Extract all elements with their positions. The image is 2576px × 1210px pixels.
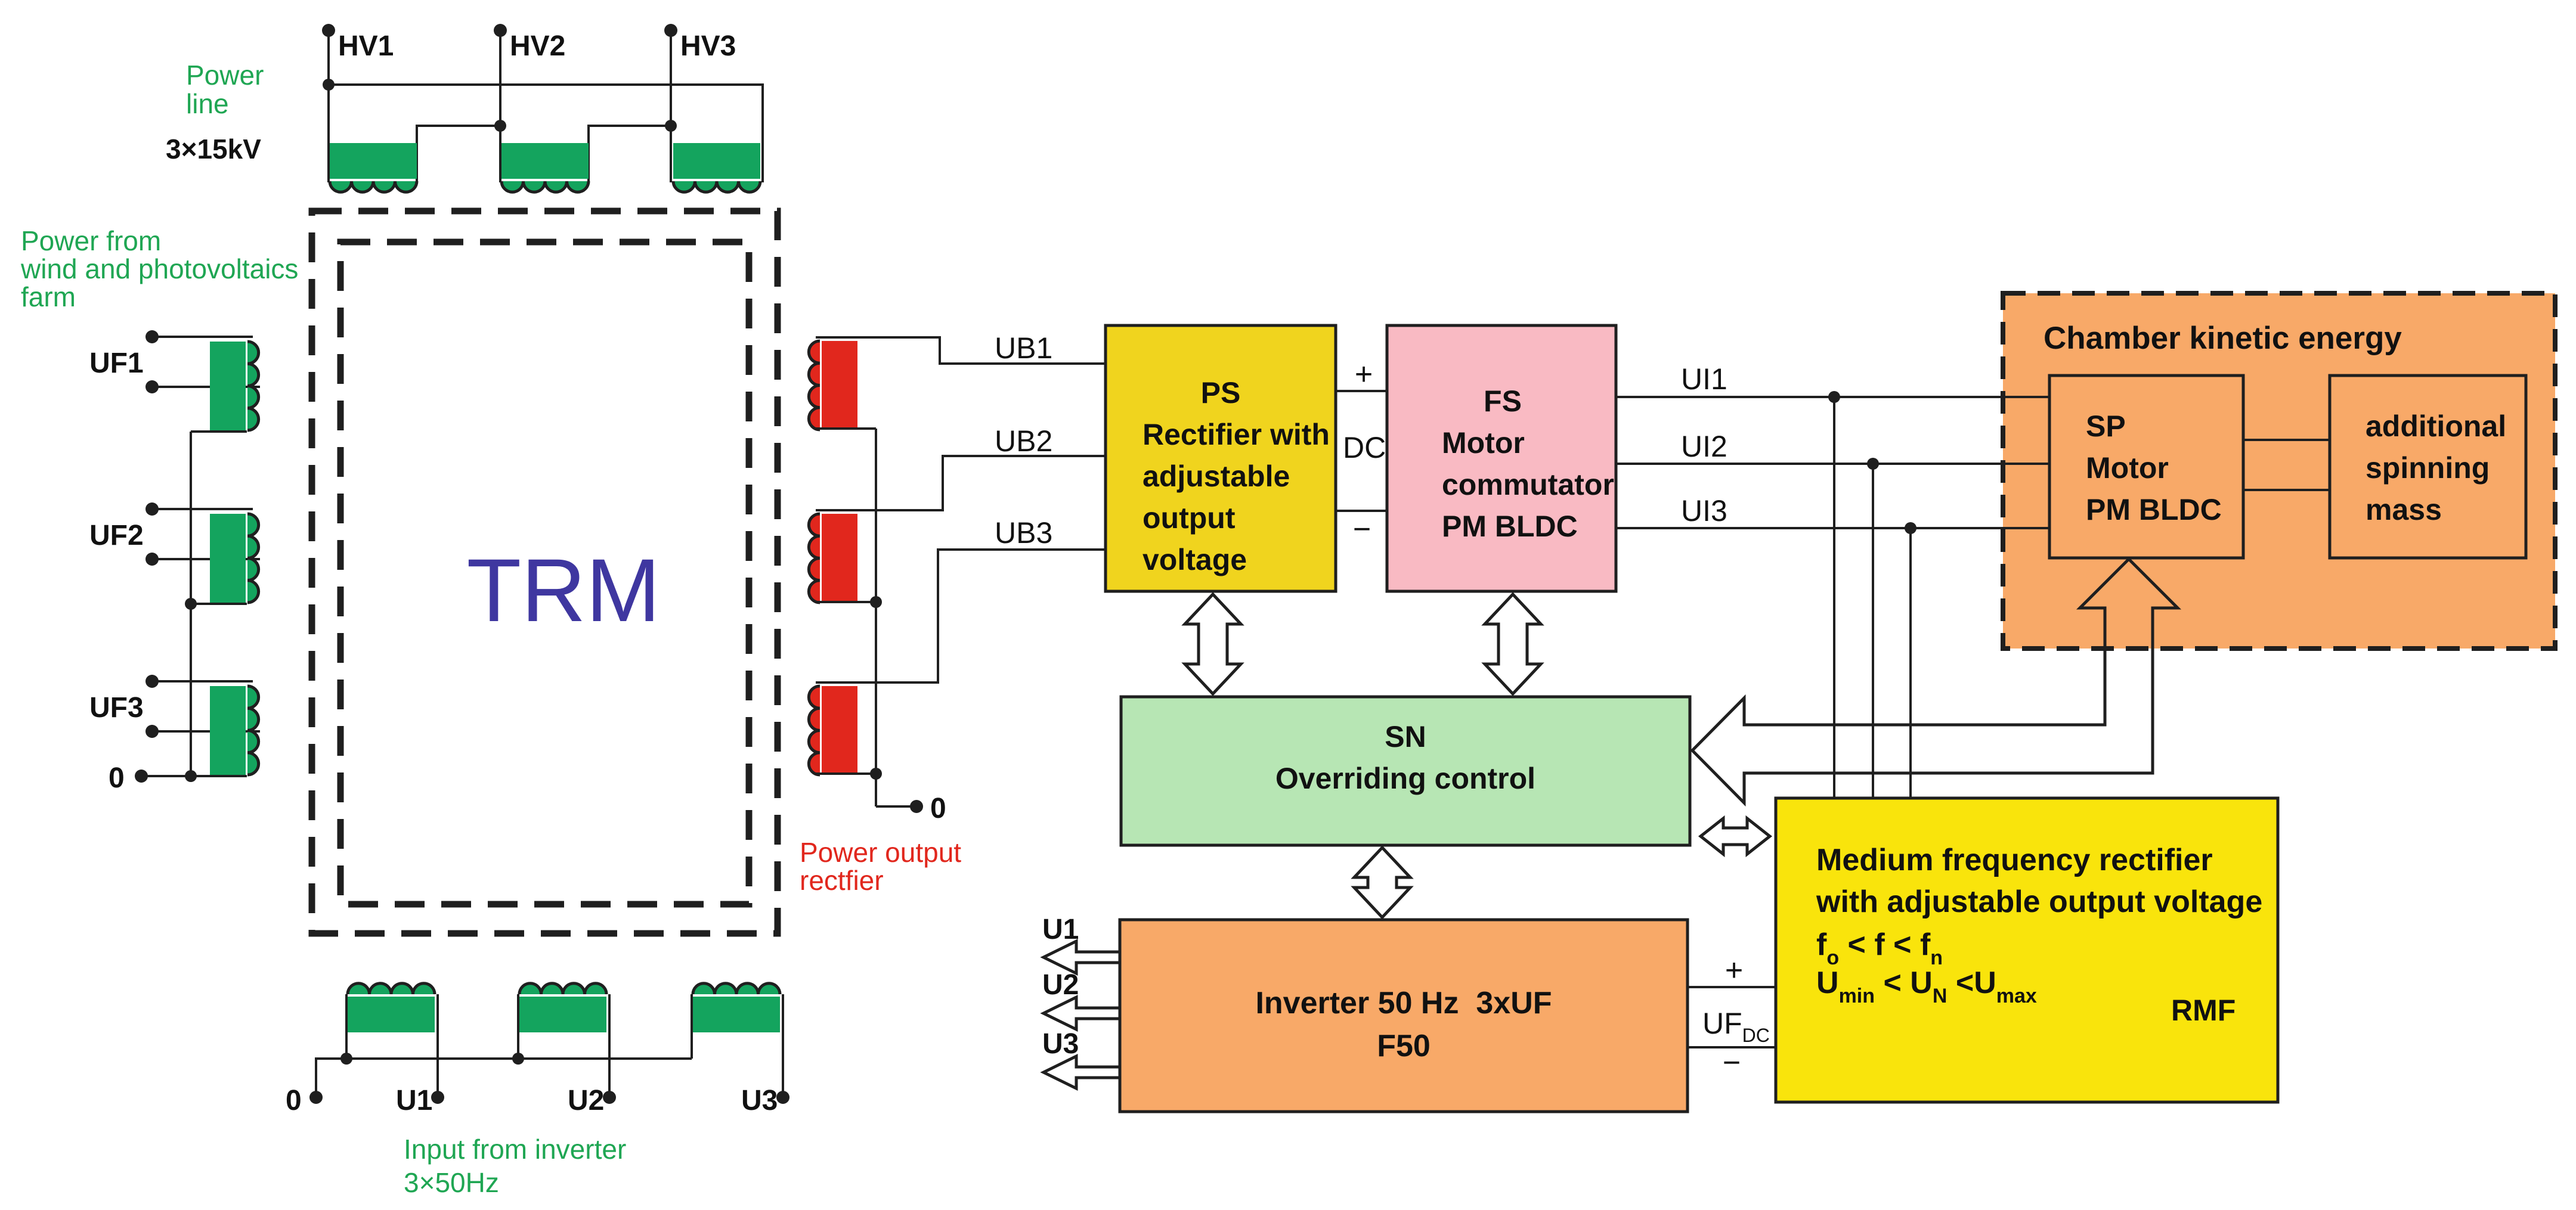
arrow SN-Inverter (double headed) bbox=[1354, 848, 1410, 917]
svg-text:Overriding control: Overriding control bbox=[1275, 762, 1535, 795]
junction dot UI2 bbox=[1867, 458, 1879, 470]
junction dot red rail 1 bbox=[870, 596, 882, 608]
arrow feedback into SN and SP (L-shaped hollow outline) bbox=[1692, 559, 2178, 803]
svg-text:FS: FS bbox=[1484, 384, 1522, 418]
transformer winding UF1 (green, taps left) bbox=[210, 342, 246, 430]
block PS rectifier (yellow) bbox=[1106, 325, 1336, 591]
wire UI3 drop to RMF bbox=[1909, 528, 1912, 798]
svg-text:U1: U1 bbox=[1042, 914, 1079, 945]
svg-text:U2: U2 bbox=[568, 1085, 604, 1116]
arrow SN-RMF (double headed horizontal) bbox=[1701, 818, 1770, 854]
svg-text:U3: U3 bbox=[1042, 1028, 1079, 1060]
junction dot UI1 bbox=[1828, 391, 1840, 403]
arrow U2 output bbox=[1044, 997, 1120, 1029]
svg-text:−: − bbox=[1353, 512, 1371, 547]
node 0 terminal (left) bbox=[135, 770, 148, 783]
svg-text:additional: additional bbox=[2366, 409, 2506, 443]
svg-text:spinning: spinning bbox=[2366, 451, 2490, 485]
node U1 terminal bbox=[431, 1091, 444, 1104]
svg-text:commutator: commutator bbox=[1442, 468, 1614, 501]
svg-text:U1: U1 bbox=[396, 1085, 432, 1116]
wire B1 right terminal bbox=[436, 994, 439, 1097]
svg-text:wind and photovoltaics: wind and photovoltaics bbox=[20, 253, 298, 284]
svg-text:UI2: UI2 bbox=[1681, 430, 1727, 463]
arrow U3 output bbox=[1044, 1056, 1120, 1088]
arrow PS-SN (double headed) bbox=[1185, 594, 1241, 694]
svg-text:TRM: TRM bbox=[467, 540, 661, 640]
block additional spinning mass bbox=[2330, 376, 2526, 558]
svg-text:UB1: UB1 bbox=[995, 331, 1052, 365]
svg-text:farm: farm bbox=[21, 281, 76, 312]
svg-text:U2: U2 bbox=[1042, 969, 1079, 1001]
wire SP to mass shaft top bbox=[2243, 439, 2330, 441]
junction dot on HV3 line bbox=[665, 120, 677, 132]
svg-text:HV1: HV1 bbox=[338, 30, 394, 62]
svg-text:adjustable: adjustable bbox=[1143, 460, 1290, 493]
block Inverter 50Hz (orange) bbox=[1120, 920, 1688, 1112]
svg-text:F50: F50 bbox=[1377, 1029, 1431, 1063]
wire DC plus bbox=[1336, 390, 1387, 392]
wire UF2 bottom bbox=[191, 603, 247, 605]
svg-text:voltage: voltage bbox=[1143, 543, 1247, 576]
svg-text:PM BLDC: PM BLDC bbox=[2086, 493, 2222, 526]
block FS motor commutator (pink) bbox=[1387, 325, 1616, 591]
wire B2 right terminal bbox=[608, 994, 611, 1097]
transformer winding UF2 (green, taps left) bbox=[210, 514, 246, 603]
svg-text:Chamber kinetic energy: Chamber kinetic energy bbox=[2044, 321, 2402, 356]
svg-text:RMF: RMF bbox=[2171, 994, 2236, 1027]
svg-text:rectfier: rectfier bbox=[800, 865, 884, 896]
arrow FS-SN (double headed) bbox=[1485, 594, 1541, 694]
wire red3 top / UB3 bbox=[816, 550, 1106, 682]
wire UF1 top terminal bbox=[152, 336, 253, 338]
wire winding3 terminals bbox=[670, 145, 672, 182]
svg-text:Medium frequency rectifier: Medium frequency rectifier bbox=[1816, 843, 2213, 877]
wire red1 top / UB1 bbox=[816, 337, 1106, 364]
transformer winding HV phase 2 (green) bbox=[501, 143, 589, 179]
node 0 terminal (bottom) bbox=[309, 1091, 323, 1104]
wire HV2 vertical bbox=[499, 30, 501, 146]
TRM inner dashed boundary bbox=[340, 242, 749, 904]
wire UI3 bbox=[1616, 527, 2049, 529]
block SP Motor PM BLDC bbox=[2049, 376, 2243, 558]
svg-text:UB2: UB2 bbox=[995, 424, 1052, 458]
transformer winding HV phase 3 (green) bbox=[673, 143, 760, 179]
node HV1 terminal dot bbox=[322, 24, 335, 37]
svg-text:SN: SN bbox=[1385, 720, 1426, 753]
wire winding2-right to HV3 bbox=[589, 126, 671, 146]
arrow U1 output bbox=[1044, 941, 1120, 973]
svg-text:Power from: Power from bbox=[21, 225, 161, 256]
wire UF3 centre tap bbox=[152, 730, 260, 733]
svg-text:Motor: Motor bbox=[1442, 426, 1525, 460]
node HV2 terminal dot bbox=[494, 24, 507, 37]
block RMF medium frequency rectifier (yellow) bbox=[1776, 798, 2278, 1102]
node 0 terminal (red side) bbox=[910, 800, 923, 813]
wire winding1-right to HV2 bbox=[417, 126, 500, 146]
transformer winding UF3 (green, taps left) bbox=[210, 686, 246, 775]
wire red2 bottom bbox=[816, 601, 876, 603]
svg-text:−: − bbox=[1723, 1045, 1741, 1080]
svg-text:HV3: HV3 bbox=[680, 30, 736, 62]
svg-text:Power: Power bbox=[186, 60, 264, 91]
wire UI1 bbox=[1616, 396, 2049, 398]
wire UF1 centre tap bbox=[152, 386, 260, 388]
svg-text:mass: mass bbox=[2366, 493, 2442, 526]
node HV3 terminal dot bbox=[664, 24, 677, 37]
block Chamber kinetic energy (orange dashed) bbox=[2003, 293, 2555, 649]
wire B3 left terminal bbox=[691, 994, 693, 1059]
terminal dots UF3 bbox=[145, 675, 159, 688]
node U3 terminal bbox=[776, 1091, 789, 1104]
wire 0 bus bottom bbox=[316, 1059, 692, 1097]
junction dot UI3 bbox=[1905, 522, 1916, 534]
wire red1 bottom to rail bbox=[816, 427, 876, 430]
node U2 terminal bbox=[603, 1091, 616, 1104]
wire UF3 top terminal bbox=[152, 680, 253, 682]
svg-text:UB3: UB3 bbox=[995, 516, 1052, 550]
wire red3 bottom bbox=[816, 772, 876, 775]
wire UF2 centre tap bbox=[152, 558, 260, 560]
svg-text:PS: PS bbox=[1201, 376, 1241, 409]
svg-text:+: + bbox=[1355, 357, 1373, 392]
inverter input winding 2 (green) bbox=[519, 997, 606, 1032]
wire top bus HV1 to winding3 right bbox=[329, 85, 763, 146]
svg-text:Rectifier with: Rectifier with bbox=[1143, 418, 1330, 451]
svg-text:0: 0 bbox=[930, 793, 946, 824]
inverter input winding 1 (green) bbox=[348, 997, 435, 1032]
wire rail to 0 terminal bbox=[876, 805, 917, 808]
svg-text:output: output bbox=[1143, 501, 1236, 535]
junction dot UF rail bottom bbox=[185, 770, 197, 782]
svg-text:PM BLDC: PM BLDC bbox=[1442, 510, 1578, 543]
rectifier output winding 2 (red) bbox=[822, 514, 857, 603]
wire red rail vertical bbox=[875, 429, 877, 806]
svg-text:SP: SP bbox=[2086, 409, 2126, 443]
svg-text:UI3: UI3 bbox=[1681, 494, 1727, 528]
svg-text:UF2: UF2 bbox=[89, 520, 144, 551]
junction dot bus B2 bbox=[512, 1053, 524, 1065]
block SN overriding control (light green) bbox=[1121, 697, 1690, 845]
svg-text:Motor: Motor bbox=[2086, 451, 2169, 485]
junction dot red rail 2 bbox=[870, 768, 882, 780]
wire UI2 bbox=[1616, 463, 2049, 465]
wire UF1 bottom to rail bbox=[191, 430, 247, 433]
wire UFdc minus bbox=[1688, 1046, 1776, 1048]
wire red2 top / UB2 bbox=[816, 456, 1106, 510]
wire UI2 drop to RMF bbox=[1872, 464, 1874, 798]
wire HV3 vertical bbox=[670, 30, 672, 146]
wire UF rail vertical bbox=[190, 432, 192, 776]
svg-text:DC: DC bbox=[1343, 431, 1386, 464]
terminal dots UF1 bbox=[145, 330, 159, 343]
svg-text:Power output: Power output bbox=[800, 837, 961, 868]
svg-text:Input from inverter: Input from inverter bbox=[404, 1134, 626, 1165]
svg-text:Inverter 50 Hz 3xUF: Inverter 50 Hz 3xUF bbox=[1255, 986, 1552, 1020]
svg-text:with adjustable output voltage: with adjustable output voltage bbox=[1816, 885, 2262, 919]
terminal dots UF2 bbox=[145, 502, 159, 516]
svg-text:HV2: HV2 bbox=[510, 30, 565, 62]
inverter input winding 3 (green) bbox=[693, 997, 780, 1032]
svg-text:UF3: UF3 bbox=[89, 692, 144, 724]
svg-text:U3: U3 bbox=[741, 1085, 778, 1116]
wire DC minus bbox=[1336, 510, 1387, 512]
wire B1 left terminal bbox=[345, 994, 348, 1059]
junction dot on HV2 line bbox=[494, 120, 506, 132]
wire UF3 bottom / 0 wire bbox=[141, 775, 247, 777]
svg-text:3×15kV: 3×15kV bbox=[166, 134, 261, 165]
TRM outer dashed boundary bbox=[312, 211, 778, 933]
svg-text:UF1: UF1 bbox=[89, 348, 144, 379]
wire winding1 terminals bbox=[327, 145, 330, 182]
wire B2 left terminal bbox=[517, 994, 519, 1059]
svg-text:+: + bbox=[1725, 953, 1743, 988]
wire UFdc plus bbox=[1688, 986, 1776, 988]
junction dot HV1 bus bbox=[323, 79, 335, 91]
svg-text:3×50Hz: 3×50Hz bbox=[404, 1167, 499, 1198]
junction dot bus B1 bbox=[340, 1053, 352, 1065]
transformer winding HV phase 1 (green) bbox=[330, 143, 417, 179]
junction dot UF2 bottom bbox=[185, 598, 197, 610]
svg-text:line: line bbox=[186, 88, 229, 119]
wire SP to mass shaft bottom bbox=[2243, 489, 2330, 491]
wire B3 right terminal bbox=[782, 994, 784, 1097]
svg-text:UI1: UI1 bbox=[1681, 362, 1727, 396]
svg-text:0: 0 bbox=[109, 762, 125, 794]
wire UF2 top terminal bbox=[152, 508, 253, 510]
svg-text:0: 0 bbox=[286, 1085, 302, 1116]
wire winding2 terminals bbox=[499, 145, 501, 182]
wire UI1 drop to RMF bbox=[1833, 397, 1835, 798]
wire HV1 vertical bbox=[327, 30, 330, 146]
rectifier output winding 1 (red) bbox=[822, 341, 857, 430]
rectifier output winding 3 (red) bbox=[822, 686, 857, 775]
